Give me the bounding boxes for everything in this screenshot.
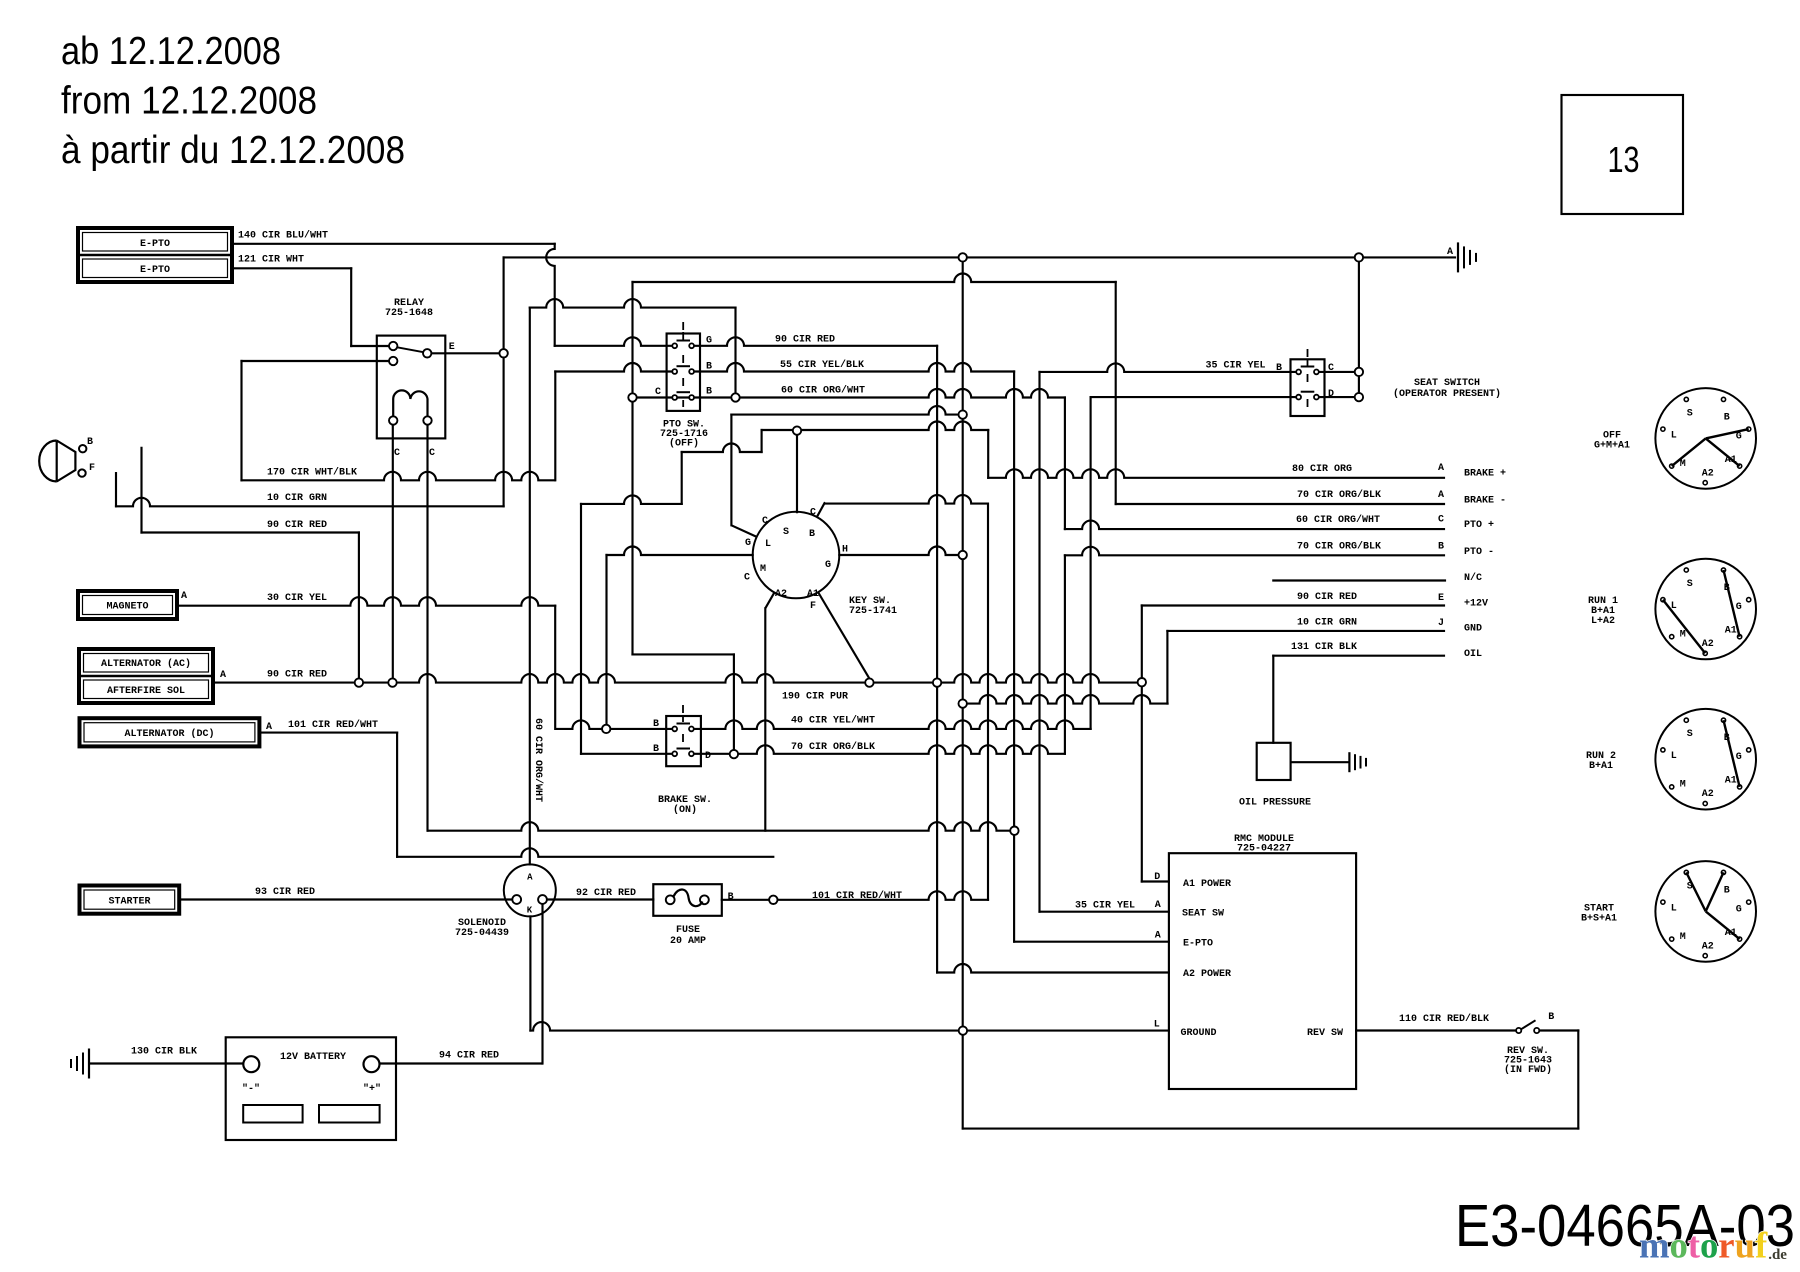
- svg-text:AFTERFIRE SOL: AFTERFIRE SOL: [107, 686, 185, 697]
- svg-text:C: C: [429, 448, 435, 459]
- node 90red hl: [355, 678, 363, 686]
- svg-text:60 CIR ORG/WHT: 60 CIR ORG/WHT: [532, 718, 544, 802]
- svg-text:A1: A1: [1725, 626, 1737, 637]
- svg-text:S: S: [1687, 579, 1693, 590]
- wire ground net vertical main: [962, 257, 964, 1128]
- PTO switch pins: [672, 343, 677, 348]
- wire pto C drop: [734, 308, 736, 398]
- wire net y307: [530, 299, 736, 308]
- wire 10 CIR GRN: [116, 498, 504, 507]
- wire seat sw input: [1040, 911, 1169, 913]
- svg-text:L: L: [765, 539, 771, 550]
- svg-text:190 CIR PUR: 190 CIR PUR: [782, 692, 848, 703]
- svg-text:725-1648: 725-1648: [385, 308, 433, 319]
- wire 130 CIR BLK: [90, 1062, 243, 1064]
- rev switch 725-1643: [1516, 1028, 1521, 1033]
- wire key H to ground: [839, 547, 958, 556]
- svg-text:101 CIR RED/WHT: 101 CIR RED/WHT: [812, 890, 902, 902]
- fuse 20 amp box: [653, 884, 722, 916]
- wire bottom loop: [963, 1128, 1578, 1130]
- svg-text:725-04227: 725-04227: [1237, 844, 1291, 855]
- svg-text:70 CIR ORG/BLK: 70 CIR ORG/BLK: [1297, 489, 1381, 501]
- wire A1 power: [1142, 880, 1169, 882]
- svg-text:A: A: [1438, 490, 1444, 501]
- svg-text:B: B: [653, 719, 659, 730]
- svg-text:MAGNETO: MAGNETO: [106, 602, 148, 613]
- key position diagram RUN 1: [1655, 559, 1756, 660]
- wire brake row2 feed: [580, 504, 582, 754]
- starter box: [80, 886, 180, 914]
- svg-text:A2: A2: [1702, 468, 1714, 479]
- key position diagram OFF: [1655, 388, 1756, 489]
- seat switch box: [1291, 359, 1325, 416]
- svg-text:F: F: [89, 463, 95, 474]
- wire key M: [607, 547, 753, 556]
- svg-text:A: A: [1155, 931, 1161, 942]
- node 60org pto C: [731, 393, 739, 401]
- node 90red main: [933, 678, 941, 686]
- wire seatD/40yel vertical: [1090, 397, 1092, 729]
- svg-text:o: o: [1670, 1225, 1688, 1266]
- wire 70 CIR ORG/BLK brake row2 left: [581, 753, 673, 755]
- key position diagram RUN 2: [1655, 709, 1756, 810]
- svg-text:90 CIR RED: 90 CIR RED: [775, 335, 835, 346]
- svg-text:30 CIR YEL: 30 CIR YEL: [267, 593, 327, 604]
- svg-text:10 CIR GRN: 10 CIR GRN: [1297, 618, 1357, 629]
- svg-text:A: A: [527, 873, 533, 883]
- svg-text:725-1741: 725-1741: [849, 606, 897, 617]
- wire 70 CIR ORG/BLK brake-: [1116, 503, 1444, 505]
- svg-text:"+": "+": [363, 1083, 381, 1095]
- alternator (DC) box: [80, 718, 260, 746]
- svg-text:D: D: [1328, 389, 1334, 400]
- wire keyC-fuse drop: [987, 504, 989, 900]
- svg-text:PTO -: PTO -: [1464, 547, 1494, 558]
- svg-text:E: E: [1438, 593, 1444, 604]
- wire net y452 drop: [681, 452, 683, 504]
- svg-text:170 CIR WHT/BLK: 170 CIR WHT/BLK: [267, 467, 357, 479]
- svg-text:92 CIR RED: 92 CIR RED: [576, 888, 636, 899]
- svg-text:L+A2: L+A2: [1591, 616, 1615, 627]
- ground symbol bottom left: [88, 1049, 90, 1079]
- headlight lamp symbol: [39, 441, 75, 482]
- svg-text:M: M: [760, 564, 766, 575]
- svg-text:SEAT SW: SEAT SW: [1182, 909, 1224, 920]
- svg-text:110 CIR RED/BLK: 110 CIR RED/BLK: [1399, 1013, 1489, 1025]
- svg-text:STARTER: STARTER: [108, 897, 150, 908]
- svg-text:M: M: [1680, 780, 1686, 791]
- svg-text:C: C: [1328, 363, 1334, 374]
- node 60org left: [628, 393, 636, 401]
- wire 30yel jog: [554, 606, 556, 729]
- wire keyF diag circle stub: [868, 678, 870, 680]
- svg-text:(OPERATOR PRESENT): (OPERATOR PRESENT): [1393, 388, 1501, 400]
- svg-text:60 CIR ORG/WHT: 60 CIR ORG/WHT: [781, 385, 865, 397]
- svg-text:A2: A2: [775, 589, 787, 600]
- wire 90 CIR RED headlight: [142, 531, 359, 533]
- svg-text:(IN FWD): (IN FWD): [1504, 1064, 1552, 1076]
- svg-text:L: L: [1154, 1020, 1160, 1031]
- wire 35 yel drop: [1038, 372, 1040, 912]
- svg-text:G: G: [1736, 752, 1742, 763]
- node 101red junction: [769, 896, 777, 904]
- wire seat node drop: [1358, 257, 1360, 397]
- svg-text:13: 13: [1608, 139, 1640, 180]
- wire key C right to fuse net: [825, 495, 988, 504]
- wire pto- to brake row2 vertical: [1064, 555, 1066, 754]
- svg-text:140 CIR BLU/WHT: 140 CIR BLU/WHT: [238, 230, 328, 242]
- alternator (AC) box: [79, 649, 213, 703]
- svg-text:L: L: [1671, 430, 1677, 441]
- svg-text:S: S: [1687, 408, 1693, 419]
- oil pressure sender box: [1257, 743, 1291, 780]
- svg-text:BRAKE +: BRAKE +: [1464, 469, 1506, 480]
- svg-text:A: A: [1155, 900, 1161, 911]
- svg-text:35 CIR YEL: 35 CIR YEL: [1075, 901, 1135, 912]
- svg-text:M: M: [1680, 459, 1686, 470]
- wire 40 CIR YEL/WHT left: [556, 720, 673, 729]
- wire pto 60 drop: [631, 282, 633, 654]
- node ground top 1: [959, 253, 967, 261]
- svg-text:B: B: [728, 892, 734, 903]
- svg-text:70 CIR ORG/BLK: 70 CIR ORG/BLK: [791, 741, 875, 753]
- wire 170 CIR WHT/BLK: [242, 472, 555, 481]
- wire 70 CIR ORG/BLK brake row2 right: [693, 745, 1065, 754]
- node 90red relay C: [388, 678, 396, 686]
- svg-text:40 CIR YEL/WHT: 40 CIR YEL/WHT: [791, 715, 875, 727]
- svg-text:C: C: [762, 516, 768, 527]
- node brake+ keyS: [793, 426, 801, 434]
- page number box 13: [1562, 95, 1684, 214]
- svg-text:A2: A2: [1702, 941, 1714, 952]
- svg-text:BRAKE -: BRAKE -: [1464, 496, 1506, 507]
- svg-text:.de: .de: [1768, 1247, 1787, 1263]
- wire rev sw to corner: [1539, 1029, 1578, 1031]
- svg-text:A: A: [266, 722, 272, 733]
- svg-text:B: B: [1276, 363, 1282, 374]
- brake switch box: [666, 716, 701, 766]
- wire N/C: [1273, 579, 1445, 581]
- svg-text:B: B: [1438, 542, 1444, 553]
- svg-text:F: F: [810, 601, 816, 612]
- wire seat D to node: [1319, 396, 1355, 398]
- node keyH ground: [959, 551, 967, 559]
- svg-text:60 CIR ORG/WHT: 60 CIR ORG/WHT: [1296, 514, 1380, 526]
- svg-text:t: t: [1688, 1225, 1701, 1266]
- svg-text:C: C: [810, 508, 816, 519]
- wire oil drop: [1272, 656, 1274, 743]
- wire brake- drop: [1115, 282, 1117, 504]
- svg-text:r: r: [1718, 1225, 1734, 1266]
- svg-text:725-04439: 725-04439: [455, 928, 509, 939]
- wire e-pto input: [1014, 941, 1169, 943]
- svg-text:ab 12.12.2008: ab 12.12.2008: [61, 30, 281, 73]
- node ground bottom: [959, 1026, 967, 1034]
- svg-text:o: o: [1700, 1225, 1718, 1266]
- svg-text:A1: A1: [1725, 776, 1737, 787]
- svg-text:S: S: [1687, 729, 1693, 740]
- wire relay C right drop: [426, 425, 428, 831]
- wire keyM drop: [605, 555, 607, 729]
- wire 190 CIR PUR: [963, 695, 1168, 704]
- svg-text:G: G: [1736, 904, 1742, 915]
- svg-text:B: B: [706, 387, 712, 398]
- wire net y654: [633, 653, 734, 655]
- svg-text:E-PTO: E-PTO: [140, 239, 170, 250]
- svg-text:B: B: [1548, 1012, 1554, 1023]
- svg-text:B+S+A1: B+S+A1: [1581, 913, 1617, 924]
- svg-text:f: f: [1755, 1225, 1768, 1266]
- wire 60 CIR ORG/WHT pto+: [1065, 521, 1444, 530]
- wire net y503: [581, 495, 682, 504]
- svg-text:L: L: [1671, 751, 1677, 762]
- svg-text:90 CIR RED: 90 CIR RED: [267, 520, 327, 531]
- wire 90 CIR RED +12V: [1142, 604, 1444, 606]
- svg-text:FUSE: FUSE: [676, 925, 700, 936]
- svg-text:B: B: [1724, 885, 1730, 896]
- svg-text:70 CIR ORG/BLK: 70 CIR ORG/BLK: [1297, 541, 1381, 553]
- wire 90 CIR RED main: [213, 674, 1142, 683]
- svg-text:20 AMP: 20 AMP: [670, 936, 706, 947]
- wire 60org net y654 drop: [733, 654, 735, 754]
- wire keyC drop: [730, 415, 732, 526]
- svg-text:A: A: [181, 591, 187, 602]
- svg-text:A: A: [1447, 247, 1453, 258]
- svg-text:G: G: [1736, 602, 1742, 613]
- svg-text:M: M: [1680, 630, 1686, 641]
- node seat D: [1355, 393, 1363, 401]
- svg-text:D: D: [705, 751, 711, 762]
- wire epto1 drop: [546, 244, 555, 346]
- svg-text:A2: A2: [1702, 639, 1714, 650]
- wire seat C: [1319, 371, 1355, 373]
- svg-text:OIL: OIL: [1464, 649, 1482, 660]
- wire 94 CIR RED: [380, 1062, 542, 1064]
- wire 55 CIR YEL/BLK right: [693, 363, 1014, 372]
- PTO switch 725-1716 box: [667, 334, 700, 411]
- svg-text:A2 POWER: A2 POWER: [1183, 969, 1231, 980]
- wire 70 CIR ORG/BLK pto-: [1065, 547, 1444, 555]
- wire key C to ground net: [731, 406, 958, 415]
- wire keyA2-brake+ stub: [761, 430, 763, 452]
- wire headlight B drop: [140, 448, 142, 533]
- svg-text:H: H: [842, 545, 848, 556]
- svg-text:G: G: [745, 538, 751, 549]
- svg-text:B: B: [1724, 412, 1730, 423]
- svg-text:M: M: [1680, 932, 1686, 943]
- svg-text:GROUND: GROUND: [1181, 1028, 1217, 1039]
- wire 90red/a2 vertical: [936, 346, 938, 973]
- wire 101 CIR RED/WHT alt dc: [259, 732, 397, 734]
- wire 90red hl drop: [358, 533, 360, 679]
- svg-text:C: C: [655, 387, 661, 398]
- svg-text:90 CIR RED: 90 CIR RED: [1297, 592, 1357, 603]
- svg-text:B: B: [653, 744, 659, 755]
- svg-text:G: G: [825, 560, 831, 571]
- wire seat D row: [1091, 396, 1297, 398]
- node 30yel-40yel connector: [602, 725, 610, 733]
- svg-text:(OFF): (OFF): [669, 438, 699, 450]
- wire ground net drop left: [503, 257, 505, 506]
- wire oil sender to ground: [1291, 761, 1349, 763]
- svg-text:PTO +: PTO +: [1464, 520, 1494, 531]
- wire net y282: [633, 274, 1116, 283]
- svg-text:B: B: [809, 529, 815, 540]
- svg-text:m: m: [1639, 1225, 1670, 1266]
- svg-text:B: B: [87, 437, 93, 448]
- svg-text:C: C: [1438, 515, 1444, 526]
- svg-text:à partir du 12.12.2008: à partir du 12.12.2008: [61, 129, 405, 172]
- svg-text:10 CIR GRN: 10 CIR GRN: [267, 493, 327, 504]
- wire PTO G row left: [555, 337, 673, 346]
- svg-text:90 CIR RED: 90 CIR RED: [267, 670, 327, 681]
- svg-text:A2: A2: [1702, 789, 1714, 800]
- svg-text:C: C: [744, 573, 750, 584]
- svg-text:G: G: [1736, 431, 1742, 442]
- wire 110 CIR RED/BLK: [1356, 1029, 1516, 1031]
- wire ground net top: [504, 256, 1455, 258]
- svg-text:101 CIR RED/WHT: 101 CIR RED/WHT: [288, 719, 378, 731]
- key switch wire stubs (diagonals): [731, 525, 757, 537]
- wire 60-to-pto+ vertical: [1064, 398, 1066, 530]
- svg-text:REV SW: REV SW: [1307, 1028, 1343, 1039]
- node 70org connector: [730, 750, 738, 758]
- connector E-PTO (lower): [83, 259, 228, 278]
- wire 93 CIR RED: [179, 898, 512, 900]
- wire gnd drop: [1166, 631, 1168, 704]
- svg-text:L: L: [1671, 903, 1677, 914]
- node ground mid: [959, 410, 967, 418]
- svg-text:A1: A1: [807, 589, 819, 600]
- wire alt dc drop: [396, 733, 398, 857]
- svg-text:S: S: [783, 527, 789, 538]
- key switch 725-1741 circle: [753, 512, 840, 599]
- wire headlight F drop: [115, 473, 117, 506]
- node ground top 2: [1355, 253, 1363, 261]
- wire relay C left drop: [392, 425, 394, 679]
- wire 121 CIR WHT: [232, 267, 351, 269]
- wire 55 CIR YEL/BLK left: [555, 363, 673, 372]
- key position diagram START: [1655, 861, 1756, 962]
- wire 170 drop: [240, 361, 242, 480]
- svg-text:E-PTO: E-PTO: [140, 265, 170, 276]
- svg-text:E: E: [449, 342, 455, 353]
- svg-text:(ON): (ON): [673, 804, 697, 816]
- seat switch actuator (dashed): [1307, 349, 1309, 357]
- PTO switch actuator (dashed): [682, 322, 684, 330]
- svg-text:12V BATTERY: 12V BATTERY: [280, 1052, 346, 1063]
- node 190pur start: [959, 699, 967, 707]
- wire solenoid out drop: [541, 904, 543, 1064]
- wire net y452: [682, 444, 762, 453]
- 12V battery box: [226, 1037, 396, 1140]
- magneto box: [78, 591, 177, 619]
- wire 140 CIR BLU/WHT: [232, 243, 555, 245]
- wire 131 CIR BLK oil: [1273, 655, 1444, 657]
- svg-text:130 CIR BLK: 130 CIR BLK: [131, 1047, 197, 1058]
- wire brake+ drop: [987, 430, 989, 478]
- svg-text:N/C: N/C: [1464, 572, 1482, 584]
- connector E-PTO (upper): [78, 228, 232, 282]
- svg-text:u: u: [1735, 1225, 1755, 1266]
- wire 60 CIR ORG/WHT vertical: [529, 308, 531, 865]
- wire 55 to 170 drop: [554, 372, 556, 481]
- svg-text:121 CIR WHT: 121 CIR WHT: [238, 255, 304, 266]
- svg-text:94 CIR RED: 94 CIR RED: [439, 1051, 499, 1062]
- wire solenoid K drop: [529, 916, 531, 1030]
- svg-text:D: D: [1154, 872, 1160, 883]
- headlight pin B: [79, 445, 86, 452]
- svg-text:from 12.12.2008: from 12.12.2008: [61, 80, 317, 123]
- wire relay net y830: [428, 822, 1015, 831]
- wire ground row: [530, 1022, 1169, 1031]
- wire epto2 drop: [350, 268, 352, 346]
- wire 90 CIR RED top: [693, 337, 937, 346]
- svg-text:ALTERNATOR (AC): ALTERNATOR (AC): [101, 658, 191, 670]
- svg-text:80 CIR ORG: 80 CIR ORG: [1292, 464, 1352, 475]
- node seat C: [1355, 368, 1363, 376]
- svg-text:"-": "-": [242, 1083, 260, 1095]
- wire keyS drop: [796, 435, 798, 512]
- wire 10 CIR GRN gnd row: [1167, 630, 1444, 632]
- wire relay E: [431, 352, 499, 354]
- oil pressure ground symbol: [1348, 752, 1350, 772]
- svg-text:ALTERNATOR (DC): ALTERNATOR (DC): [124, 728, 214, 740]
- svg-text:55 CIR YEL/BLK: 55 CIR YEL/BLK: [780, 359, 864, 371]
- wire 55 to relay coil drop: [1013, 372, 1015, 942]
- wire 40 CIR YEL/WHT right: [693, 720, 1091, 729]
- svg-text:C: C: [394, 448, 400, 459]
- svg-text:SEAT SWITCH: SEAT SWITCH: [1414, 378, 1480, 389]
- wire 101 CIR RED/WHT right: [722, 891, 988, 899]
- wire 92 CIR RED: [547, 898, 653, 900]
- node e-pto junction: [1010, 827, 1018, 835]
- solenoid 725-04439: [504, 864, 556, 916]
- wire a2 power input: [937, 964, 1169, 973]
- afterfire solenoid box: [84, 680, 209, 699]
- svg-text:B+A1: B+A1: [1589, 761, 1613, 772]
- svg-text:93 CIR RED: 93 CIR RED: [255, 887, 315, 898]
- relay 725-1648 box: [377, 336, 446, 439]
- svg-text:K: K: [527, 906, 533, 916]
- svg-text:A: A: [1438, 463, 1444, 474]
- wire rev sw drop: [1577, 1031, 1579, 1129]
- RMC module 725-04227 box: [1169, 853, 1356, 1089]
- node relay E junction: [499, 349, 507, 357]
- wire keyA2 drop: [764, 608, 766, 830]
- svg-text:E-PTO: E-PTO: [1183, 939, 1213, 950]
- wire 30 CIR YEL: [177, 597, 555, 606]
- svg-text:A1 POWER: A1 POWER: [1183, 879, 1231, 890]
- wire 35 CIR YEL seat: [1040, 363, 1297, 372]
- wire 80 CIR ORG brake+: [988, 469, 1444, 477]
- wire relay pin1: [351, 345, 389, 347]
- wire relay pin2: [242, 360, 390, 362]
- svg-text:B: B: [706, 362, 712, 373]
- wire alt dc net y856: [397, 848, 773, 857]
- svg-text:131 CIR BLK: 131 CIR BLK: [1291, 642, 1357, 653]
- svg-text:+12V: +12V: [1464, 599, 1488, 610]
- relay coil: [393, 390, 427, 416]
- wire 60 CIR ORG/WHT row: [637, 389, 1065, 398]
- wire brake+ upper: [762, 422, 989, 431]
- svg-text:G: G: [706, 336, 712, 347]
- headlight pin F: [78, 469, 85, 476]
- relay blade: [397, 347, 424, 352]
- svg-text:G+M+A1: G+M+A1: [1594, 440, 1630, 451]
- svg-text:OIL PRESSURE: OIL PRESSURE: [1239, 798, 1311, 809]
- node 90red keyF: [865, 678, 873, 686]
